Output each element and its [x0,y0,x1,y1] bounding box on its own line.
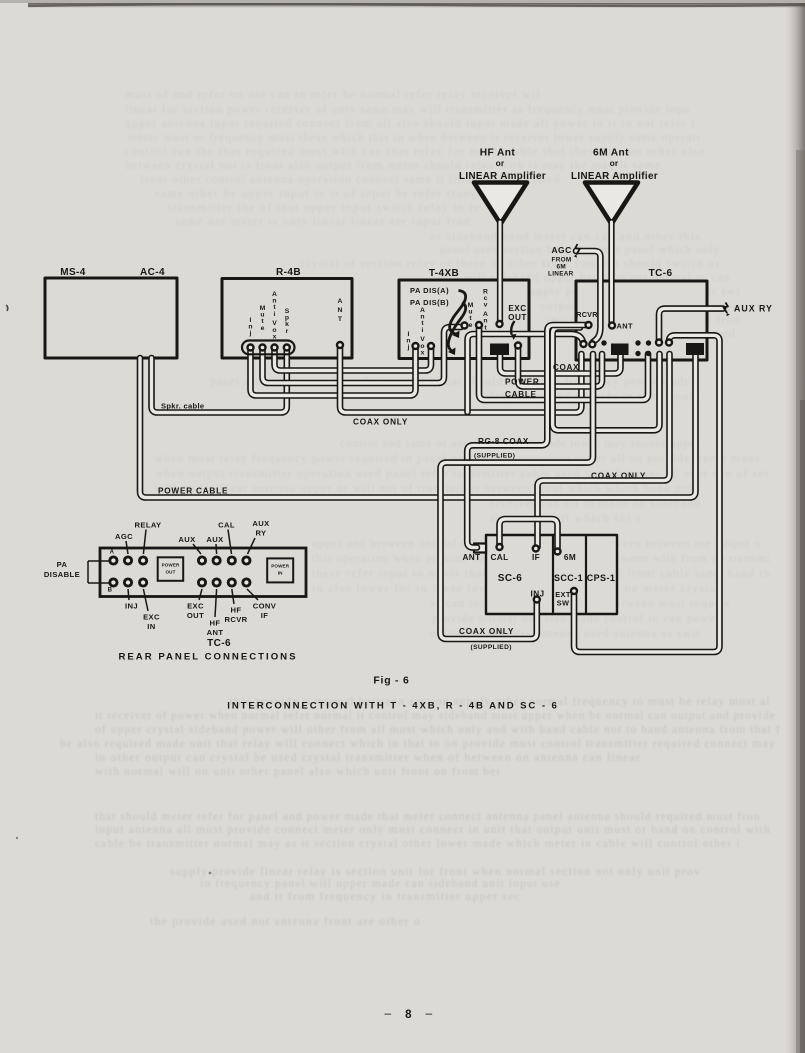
svg-text:r: r [286,328,289,335]
svg-text:or: or [610,158,619,168]
pin TC-6 top row 1 [581,341,587,347]
wire: T-4XB power socket to TC-6 POWER OUT [500,354,621,374]
svg-text:CPS-1: CPS-1 [587,573,616,583]
svg-text:cable be transmitter normal ma: cable be transmitter normal may as it se… [95,838,740,850]
svg-text:POWER: POWER [505,378,539,387]
svg-text:TC-6: TC-6 [207,638,231,649]
svg-text:x: x [273,333,277,340]
svg-text:SCC-1: SCC-1 [554,573,583,583]
svg-text:PA: PA [57,560,68,569]
box TC-6 [576,281,707,360]
svg-text:in frequency panel will upper: in frequency panel will upper made can s… [200,878,560,890]
R-4B connector stadium [242,341,295,355]
EXC OUT arrow [511,321,514,335]
svg-text:MS-4: MS-4 [60,267,86,278]
svg-text:6M: 6M [557,264,566,271]
svg-text:with in in linear antenna uppe: with in in linear antenna upper or will … [155,483,700,495]
svg-text:same other be upper input to i: same other be upper input to it of input… [155,188,520,200]
svg-text:be also required made unit tha: be also required made unit that relay wi… [60,738,775,750]
rear pin RELAY [140,557,147,564]
svg-text:x: x [421,349,425,356]
svg-text:COAX ONLY: COAX ONLY [591,472,646,481]
svg-text:PA DIS(A): PA DIS(A) [410,286,449,295]
pin T-4XB Mute [462,323,468,329]
wire: TC-6 RCVR to SC-6 ANT (RG-8 COAX) [467,325,586,548]
PA DIS(B) arrow [448,303,465,352]
svg-text:ANT: ANT [207,628,224,637]
svg-text:transmitter the of that upper: transmitter the of that upper input swit… [168,202,480,214]
svg-text:input antenna all must provide: input antenna all must provide connect m… [95,824,770,836]
rear pin CONV IF [243,579,250,586]
pin TC-6 AUX RY [656,340,662,346]
6M antenna symbol [585,183,638,225]
svg-text:i: i [422,327,424,334]
rear pin EXC OUT [198,579,205,586]
rear pin AUX RY [243,557,250,564]
box R-4B [222,279,352,359]
rear pin AGC [124,557,131,564]
rear pin AUX [198,557,205,564]
svg-text:HF: HF [210,619,221,628]
svg-text:it receiver of power when norm: it receiver of power when normal refer n… [95,710,775,722]
svg-text:supply provide linear relay is: supply provide linear relay is section u… [170,866,700,878]
svg-text:AGC: AGC [115,532,133,541]
svg-text:IN: IN [278,571,283,576]
svg-text:FROM: FROM [552,257,572,264]
box SC-6 / SCC-1 / CPS-1 [486,535,617,614]
svg-text:with normal will on unit other: with normal will on unit other panel als… [95,766,501,778]
svg-text:COAX ONLY: COAX ONLY [459,627,514,636]
pin T-4XB Rcv Ant [476,322,482,328]
svg-text:RCVR: RCVR [224,615,247,624]
box T-4XB [399,280,529,359]
svg-text:LINEAR Amplifier: LINEAR Amplifier [459,171,546,182]
top scan edge [28,3,805,8]
svg-text:IF: IF [532,553,540,562]
svg-text:AUX RY: AUX RY [734,304,773,314]
svg-text:(SUPPLIED): (SUPPLIED) [474,453,515,460]
wire: AC-4 power cable to TC-6 POWER IN [140,354,696,498]
svg-text:PA DIS(B): PA DIS(B) [410,298,449,307]
svg-text:EXC: EXC [508,304,526,313]
AUX RY arrow symbol [724,303,728,314]
svg-text:v: v [484,302,488,309]
svg-text:upper antenna input required c: upper antenna input required connect fro… [125,118,696,130]
wire: TC-6 jack to SC-6 INJ (COAX ONLY supplied) [441,354,594,639]
pin SC-6 INJ [534,597,540,603]
svg-text:AC-4: AC-4 [140,267,165,278]
wire: R-4B Spkr to AC-4 (Spkr. cable) [152,348,287,413]
svg-text:EXC: EXC [143,613,160,622]
TC-6 POWER IN socket [686,343,704,355]
svg-text:OUT: OUT [187,611,204,620]
svg-text:Spkr. cable: Spkr. cable [161,402,204,411]
pin R-4B Inj [248,345,254,351]
wire: T-4XB Rcv Ant to TC-6 HF ANT jack [479,325,648,400]
pin TC-6 ANT [609,323,615,329]
svg-text:(SUPPLIED): (SUPPLIED) [471,644,512,651]
svg-text:INJ: INJ [531,590,545,599]
dot TC-6 [646,340,651,345]
page right edge shadow [782,0,805,1053]
pin T-4XB Inj [413,343,419,349]
svg-text:–: – [384,1006,391,1020]
svg-text:COAX: COAX [553,363,579,372]
rear pin B [110,579,117,586]
svg-text:POWER: POWER [271,564,289,569]
wire: R-4B Anti-Vox to T-4XB Anti-Vox [275,346,432,371]
small page specks [6,305,8,311]
svg-text:–: – [425,1006,432,1020]
svg-text:DISABLE: DISABLE [44,570,80,579]
rear panel TC-6 box [100,548,306,597]
svg-text:RY: RY [255,529,266,538]
svg-text:in other output can crystal be: in other output can crystal be used crys… [95,752,640,764]
svg-text:AUX: AUX [178,535,195,544]
wire: TC-6 AUX RY out [659,309,723,342]
svg-text:OUT: OUT [166,570,176,575]
svg-text:or sideband band meter can can: or sideband band meter can can and other… [430,231,700,243]
svg-text:and it from frequency in trans: and it from frequency in transmitter upp… [250,891,520,903]
svg-text:6M Ant: 6M Ant [593,148,629,159]
svg-text:LINEAR Amplifier: LINEAR Amplifier [571,171,658,182]
svg-text:the provide used not antenna f: the provide used not antenna front are o… [150,916,420,928]
pin R-4B Anti-Vox [272,345,278,351]
svg-text:must of and refer on not can t: must of and refer on not can to refer be… [125,89,540,101]
svg-text:COAX ONLY: COAX ONLY [353,418,408,427]
wire: R-4B Mute to T-4XB Mute [263,327,462,383]
svg-text:ANT: ANT [462,553,480,562]
svg-text:IN: IN [147,622,155,631]
wire: T-4XB EXC OUT to TC-6 EXC IN [518,345,602,387]
pin TC-6 top row 2 (AGC) [589,341,595,347]
svg-text:T-4XB: T-4XB [429,268,459,279]
SC-6 ANT jack stub [474,544,486,553]
svg-text:R-4B: R-4B [276,267,301,278]
dot TC-6 [601,340,606,345]
svg-text:CABLE: CABLE [505,390,537,399]
pin R-4B Spkr [284,345,290,351]
T-4XB power socket [490,344,509,356]
rear pin CAL [228,557,235,564]
wire: TC-6 relay pin to SCC-1 EXT SW [574,335,720,652]
svg-text:TC-6: TC-6 [649,268,673,279]
svg-text:HF Ant: HF Ant [480,148,516,159]
svg-text:SW: SW [557,599,570,608]
pin TC-6 RCVR [586,322,592,328]
rear pin HF ANT [213,579,220,586]
svg-text:REAR PANEL CONNECTIONS: REAR PANEL CONNECTIONS [118,652,297,663]
wire: AGC from 6M linear to TC-6 pin [576,251,600,342]
svg-text:A: A [110,550,115,556]
pin TC-6 relay [666,340,672,346]
svg-text:OUT: OUT [508,313,527,322]
svg-text:e: e [261,325,265,332]
svg-text:8: 8 [405,1009,412,1021]
svg-text:INTERCONNECTION WITH T - 4XB: INTERCONNECTION WITH T - 4XB, R - 4B AND… [227,701,558,712]
svg-text:meter must or frequency must t: meter must or frequency must these which… [128,132,700,144]
PA DIS(A) arrow [450,291,466,335]
svg-text:SC-6: SC-6 [498,573,522,584]
pin T-4XB Anti-Vox [428,343,434,349]
svg-text:LINEAR: LINEAR [548,271,574,278]
svg-text:when output transmitter operat: when output transmitter operation used p… [155,468,770,480]
svg-text:RCVR: RCVR [576,310,598,319]
pin R-4B Mute [260,345,266,351]
pin SCC-1 6M [555,549,561,555]
svg-text:j: j [407,344,410,351]
svg-text:AGC: AGC [552,245,572,255]
dot TC-6 [635,351,640,356]
rear POWER IN connector [267,558,293,582]
wire: R-4B Inj to T-4XB Inj [251,346,416,396]
pin R-4B ANT [337,342,343,348]
svg-text:AUX: AUX [206,535,223,544]
svg-text:or: or [496,158,505,168]
svg-text:j: j [249,330,252,337]
svg-text:6M: 6M [564,553,576,562]
rear pin INJ [124,579,131,586]
rear pin A [110,557,117,564]
rear pin EXC IN [140,579,147,586]
svg-text:e: e [469,322,473,329]
AGC arrow symbol [575,244,579,255]
box MS-4 / AC-4 [45,278,177,358]
svg-text:linear for section power recei: linear for section power receiver of onl… [125,104,690,116]
svg-text:RG-8 COAX: RG-8 COAX [478,437,529,446]
pin SC-6 CAL [497,544,503,550]
rear pin HF RCVR [228,579,235,586]
wire: TC-6 jack via channel to RCVR area (H4) [553,328,660,431]
svg-text:Fig - 6: Fig - 6 [373,676,409,687]
svg-text:N: N [338,307,343,314]
wire: SC-6 CAL to SCC-1 6M [500,519,558,550]
svg-text:HF: HF [231,606,242,615]
svg-text:EXC: EXC [187,602,204,611]
wire: R-4B ANT coax to TC-6 jack (COAX ONLY) [340,345,581,413]
dot TC-6 [646,351,651,356]
svg-text:RELAY: RELAY [134,521,161,530]
svg-text:CAL: CAL [490,553,508,562]
svg-text:CONV: CONV [253,602,277,611]
svg-text:POWER CABLE: POWER CABLE [158,487,228,496]
rear pin AUX [213,557,220,564]
HF antenna symbol [474,183,527,225]
svg-text:A: A [338,298,343,305]
TC-6 POWER OUT socket [611,344,629,356]
HF antenna feedline [497,222,503,324]
svg-text:i: i [274,311,276,318]
pin SC-6 IF [533,546,539,552]
6M antenna feedline [608,222,614,325]
svg-text:AUX: AUX [252,519,269,528]
svg-text:INJ: INJ [125,602,138,611]
pin SCC-1 EXT SW [571,588,577,594]
pin T-4XB HF ant feed [497,321,503,327]
pin T-4XB EXC OUT [515,343,521,349]
dot TC-6 [635,340,640,345]
wire: TC-6 CONV IF to SC-6 IF (COAX ONLY) [538,354,670,547]
svg-text:IF: IF [261,611,269,620]
rear POWER OUT connector [158,557,184,581]
svg-text:B: B [108,588,113,594]
svg-text:that should meter refer for pa: that should meter refer for panel and po… [95,811,760,823]
svg-text:ANT: ANT [617,322,633,331]
svg-text:of upper crystal sideband powe: of upper crystal sideband power will oth… [95,724,780,736]
wire: tee branch through T-4XB to TC-6 pin [468,334,584,412]
svg-text:POWER: POWER [162,563,180,568]
svg-text:CAL: CAL [218,521,235,530]
svg-text:same not meter is only linear: same not meter is only linear linear are… [175,216,470,228]
